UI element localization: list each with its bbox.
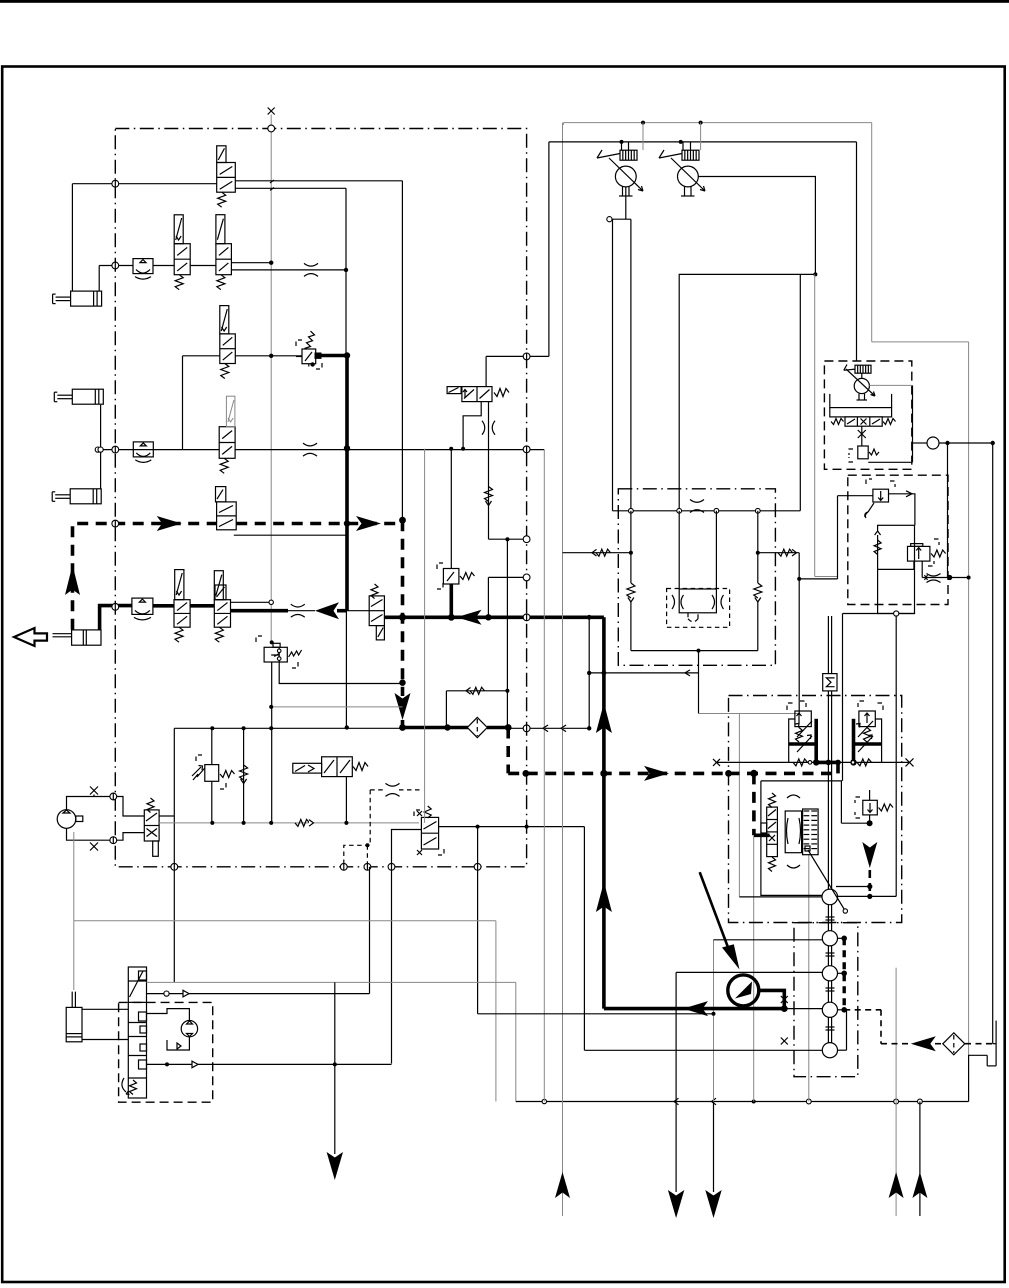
pump block frame left (612, 219, 614, 511)
junction circle enclosure right edge row356 (523, 353, 530, 360)
gray drain rail y921 (74, 920, 496, 922)
wire P1 feed y939 (714, 939, 823, 941)
gear pump stack enclosure (794, 923, 858, 1077)
gray drain from pump PB down to steering (73, 832, 75, 990)
fan drive enclosure (dashed) (824, 361, 911, 469)
wire M1 bottom-left port elbow to row449 (463, 402, 481, 449)
filter F1 (diamond) (467, 717, 487, 737)
valve V2b (3/2 solenoid) (216, 244, 232, 275)
check valve with spring branch (446, 690, 507, 692)
spring check x243 (243, 728, 245, 823)
flush block enclosure (dash-dot) (618, 489, 775, 666)
wire bypass loop x589 (588, 617, 590, 728)
gauge riser x912 (912, 385, 914, 462)
check marker in steering loop (177, 1043, 181, 1049)
arrow up on pilot dashed riser (65, 565, 80, 595)
right spring-check port row552 (758, 552, 799, 554)
wire U2 output Z-route (679, 177, 815, 511)
steering enclosure (dashed box) (119, 1002, 213, 1102)
dashed drain route to filter F2 (844, 1009, 881, 1011)
variable pump U2 (678, 166, 699, 187)
gray bus x424 (424, 449, 426, 823)
wire into V3 from left riser (183, 355, 220, 357)
wire riser x549 top corner (548, 141, 550, 143)
gray x871 drop (871, 123, 873, 342)
gray link row707 (271, 706, 402, 708)
thick dash-dot drain with down arrow (862, 842, 877, 868)
bypass relief PRE (866, 479, 872, 484)
riser x837 fan feed (837, 496, 839, 579)
wire P2 feed y972 (676, 971, 822, 973)
thick main line V4 to right corner (384, 615, 604, 619)
wire P0 right to riser (838, 895, 897, 897)
wire P0 left (739, 896, 822, 898)
wire P3-P4 link x846 (846, 1010, 848, 1050)
valve V5b (3/2 solenoid) (214, 600, 230, 628)
pressure override PRA (787, 703, 793, 710)
wire return row to right edge (508, 727, 589, 729)
top bus y142 (549, 141, 857, 143)
valve V7 (pilot) (216, 487, 226, 502)
wire cylinder riser x100 row3 (100, 405, 102, 489)
flow control FC3 (132, 598, 153, 614)
piston stack block (803, 809, 819, 855)
wire PRE right elbow (889, 494, 915, 526)
wire x631 down to manifold (630, 219, 632, 511)
thick wire PRV1 out to junction (315, 353, 322, 359)
wire x507 pilot drop (506, 539, 508, 727)
pump P3 (822, 1002, 837, 1017)
valve V3 (3/2) (220, 334, 236, 364)
variable pump U1 (615, 166, 636, 187)
fan pump FP (854, 378, 869, 393)
arrow up on riser (lower) (596, 882, 612, 912)
steering tank line y1064 (147, 1063, 392, 1065)
thick main riser x347 down (345, 356, 349, 611)
wire M1 bottom-right port down x488 (488, 402, 490, 540)
valve V6 (3/2 pilot) (219, 427, 235, 459)
cylinder C2 (row3) (72, 389, 103, 404)
wire x477 drop (477, 827, 479, 1014)
wire x799 drop (798, 553, 800, 714)
swash link diagonal (808, 850, 845, 911)
valve V5a (pilot operated) (174, 600, 190, 628)
tank riser x920 with up arrow (919, 1102, 921, 1199)
arrow left on thick main line (457, 610, 482, 625)
gray wire x808 drop (808, 855, 810, 1102)
wire V5b upper out to gray bus (231, 601, 272, 603)
wire x346 thin continue down to filter row (345, 611, 347, 728)
junction circle enclosure left edge thick row (112, 603, 119, 610)
manifold line y511 with ports (613, 510, 801, 512)
gray corner y342 to right bus (872, 341, 969, 343)
junction circles bottom edge x343 x367 (340, 863, 347, 870)
fan valve block (830, 408, 892, 417)
charge pump P0 (822, 889, 838, 905)
junction circle enclosure left edge row449 (112, 446, 119, 453)
wire port1 drop with spring check (630, 511, 632, 583)
wire riser x182 down to row449 (182, 356, 184, 450)
relief valve PRV2 (437, 563, 443, 569)
left spring-check port row552 (563, 552, 631, 554)
wire row2 V2a to V2b (190, 265, 216, 267)
filter F2 (diamond) (935, 1043, 943, 1045)
junction circle enclosure right edge row449 (523, 446, 530, 453)
charge relief PRC (855, 797, 860, 803)
thick dashed drop to control valve (752, 773, 756, 835)
right riser x896 down from cooler (895, 614, 897, 897)
check valve spring on x488 (485, 487, 493, 502)
wire arrow tail to valve V4 (339, 610, 369, 612)
valve V2a (pilot operated) (174, 244, 190, 275)
wire x488 stub down to thick line (487, 577, 489, 617)
wire x402 thin riser (401, 181, 403, 520)
junction circle enclosure right edge thick line (523, 614, 530, 621)
thick wire C4 to FC3 (100, 606, 132, 630)
right bus drop (992, 443, 994, 1044)
thick wire V5a to V5b (190, 604, 214, 608)
cylinder C3 (row449) (70, 489, 101, 504)
long drop line x335 with down arrow (334, 994, 336, 1154)
wire port2 port3 drops (678, 511, 680, 589)
wire V5b lower out with restrictor (231, 609, 289, 613)
wire return row thin left part (174, 727, 403, 729)
steering cylinder CS (66, 1007, 82, 1041)
steering control unit stack (128, 967, 146, 1098)
valve M2 (4/2 horizontal) (293, 763, 322, 773)
shaft P1-P4 (827, 905, 829, 1043)
wire row449 main (98, 449, 219, 451)
wire row356 to riser x549 (486, 355, 549, 357)
gray wire x753 drop (753, 836, 755, 1102)
wire x676 down arrow (675, 972, 677, 1192)
hydrostat control spool (767, 807, 778, 857)
cylinder C4 (thick row) (72, 630, 101, 645)
servo cross line y762 (717, 761, 910, 763)
thick dashed drop x508 (506, 728, 510, 774)
wire drop to cylinder C1 (71, 184, 73, 291)
steering line with check to long drop (147, 993, 370, 995)
wire stub row577 (488, 576, 526, 578)
arrow left on work line (315, 602, 339, 619)
hydrostatic enclosure (dash-dot) (729, 696, 902, 923)
wire row2 left segment (99, 265, 133, 267)
junction circle enclosure right edge return row (523, 725, 530, 732)
wire fan feed y579 (799, 578, 837, 580)
wire V1 out lower to x346 (235, 187, 346, 189)
wire V2b out upper to gray bus (231, 262, 271, 264)
thick line filter F1 to corner x508 (487, 726, 508, 730)
pointer arrow to pump MP (700, 872, 729, 950)
gray bus x562 with up arrow (562, 123, 564, 1198)
wire y673 link (589, 672, 698, 674)
wire U1 drain elbow (625, 187, 627, 219)
wire port4 drop with spring check (757, 511, 759, 583)
gray corner down x563 (562, 123, 564, 125)
wire y1014 link (478, 1013, 714, 1015)
valve VB (2-pos) (144, 810, 159, 841)
gray link y713 (699, 713, 800, 715)
thick dashed pilot line left corner (73, 524, 217, 630)
relief valve RVB (196, 755, 202, 761)
wire M2 down to tank rail (345, 777, 347, 823)
spring check on tank rail (295, 819, 310, 826)
summation box Sigma (823, 674, 837, 691)
arrow right on LS dashed line (644, 766, 669, 781)
gray bus x544 (543, 450, 545, 1102)
wire x488 corner to enclosure edge (489, 538, 527, 540)
gray right bus x968 drop (968, 342, 970, 1055)
wire x713 down arrow (713, 940, 715, 1102)
wire V1 out upper to x402 (235, 180, 402, 182)
gray aux drop x814 (814, 274, 816, 576)
thick dashed riser x402 down with arrow (401, 520, 405, 688)
pump P2 (822, 966, 837, 981)
gray drop x739 to pump P0 (738, 714, 740, 897)
node X vent bottom (90, 843, 98, 851)
fan relief PRD (849, 449, 853, 455)
junction circle bottom edge x174 (171, 863, 178, 870)
wire P4 feed y1050 (584, 1049, 822, 1051)
flow control FC1 (133, 259, 153, 274)
wire x856 drop to fan box (856, 142, 858, 361)
pressure reducing valve PRV1 (296, 340, 302, 346)
spring check in bypass (874, 540, 881, 555)
gyrotor metering unit (181, 1020, 197, 1036)
arrow right on pilot line (second) (356, 516, 381, 531)
pressure override PRB (877, 703, 883, 710)
thick return line into filter F1 (403, 726, 469, 730)
wire bottom collector y650 (631, 650, 758, 652)
pump block frame right (799, 274, 801, 510)
dashed pilot to V8 (399, 789, 421, 791)
wire x367 down to steering line (369, 867, 371, 994)
thick wire FC3 to V5a (153, 604, 174, 608)
wire M1 top to row356 (485, 356, 487, 386)
junction circle enclosure pump row1 (110, 793, 117, 800)
wire PRG right port to y683 (279, 662, 402, 684)
wire cooler return y613 (843, 613, 915, 615)
wire C1 cap side up to row2 (98, 266, 100, 292)
pump P4 (822, 1043, 837, 1058)
servo loop frame (761, 781, 842, 823)
loader control enclosure (dash-dot box) (115, 129, 526, 867)
charge pump PB (57, 810, 76, 829)
wire V2b out lower with throttle to x346 (231, 269, 346, 271)
gauge port circle (927, 437, 939, 449)
bypass throttle line y577 (922, 577, 968, 579)
gray stem U1 (642, 123, 644, 150)
wire x842 drop to servo frame (842, 614, 844, 781)
node x small below (781, 1038, 788, 1045)
wire P3 feed from suction (784, 1008, 822, 1010)
valve V1 (3/2 solenoid) (217, 163, 236, 193)
wire x271 below reducer (271, 662, 273, 823)
wire x584 drop to P4 feed (583, 827, 585, 1051)
wire row2 FC1 to V2a (153, 265, 174, 267)
wire VB right upper to riser x174 (159, 815, 174, 817)
wire RVB pilot up/down (211, 728, 213, 764)
wire row1 from cylinder to valve V1 (72, 183, 216, 185)
hollow arrow marker at C4 rod (14, 628, 47, 646)
junction circle bottom edge x391 (388, 863, 395, 870)
arrow up on riser (upper) (596, 703, 612, 733)
drive shaft double line upper (827, 616, 829, 674)
node X vent top (90, 787, 98, 795)
thick dashed LS into hydrostat (729, 772, 839, 776)
wire V8 left-bottom port (392, 830, 422, 1064)
gray link fan to riser (869, 384, 912, 386)
arrow left on suction line (683, 1001, 708, 1016)
junction circle enclosure pump row2 (110, 837, 117, 844)
wire x346 from V1 lower down to PRV1 junction (345, 188, 347, 354)
top title bar (0, 0, 1009, 3)
wire x698 down (698, 651, 700, 714)
wire x947 drop (947, 443, 949, 578)
node X below fan valve (861, 426, 863, 446)
thick pressure riser x604 (602, 617, 606, 1008)
wire pump PB bottom loop (67, 828, 145, 840)
cylinder C1 (71, 291, 102, 306)
junction circle enclosure left edge row2 (112, 262, 119, 269)
junction circle on enclosure top (268, 125, 275, 132)
gray steering line top (147, 981, 516, 983)
wire V7 lower output (234, 534, 347, 536)
LS shuttle valve V8 (421, 817, 438, 849)
wire pump PB top loop (67, 797, 145, 817)
wire V3 out to PRV1 (235, 355, 302, 357)
wire row449 V6 to right (235, 449, 544, 451)
main hydrostatic pump MP (728, 975, 759, 1006)
wire gray bus lower part (270, 822, 272, 824)
thick dashed LS line to right (508, 772, 728, 776)
wire pilot gray bus x271 (270, 115, 272, 643)
thick dashed pilot line to x402 (236, 522, 402, 526)
gray top bus y122 (563, 122, 871, 124)
pressure reducer PRG (256, 636, 262, 642)
thick corner x347 to arrow (337, 609, 347, 613)
gray stem U2 (700, 123, 702, 150)
thick elbow MP outlet (759, 990, 785, 1008)
bypass body frame (878, 525, 915, 613)
wire PRE left to fan feed (838, 495, 873, 497)
junction circle enclosure left edge row1 (112, 180, 119, 187)
tank rail y1101 (516, 1101, 969, 1103)
cooler bypass enclosure (dashed) (848, 475, 948, 604)
pump P1 (822, 931, 837, 946)
wire tank rail y823 (159, 822, 419, 824)
drive shaft double line into gearbox (827, 691, 829, 889)
wire V8 right port line (439, 826, 585, 828)
wire PRV2 pilot up (450, 449, 452, 569)
arrow left on drain route (911, 1036, 936, 1051)
junction circle bottom edge x477 (474, 863, 481, 870)
thick wire PRV2 down to main (449, 584, 453, 617)
thick dashed drain x844 (843, 938, 846, 1010)
wire riser x174 up to return row (173, 728, 175, 816)
valve M1 (4/2 horizontal) (447, 387, 461, 394)
gray drop x516 to bottom rail (515, 982, 517, 1101)
wire riser x549 (to top distributor) (548, 142, 550, 357)
node X plug above enclosure (268, 108, 275, 115)
cold relief PRF (911, 544, 923, 547)
inner bypass sub-block (667, 589, 730, 628)
gray tank riser x896 with up arrow (895, 968, 897, 1198)
dashed to right bus (965, 1043, 993, 1045)
wire riser x174 down to steering (173, 816, 175, 982)
valve V4 (3/2 with bottom pilot) (369, 596, 384, 626)
junction circle enclosure left edge pilot row (112, 520, 119, 527)
flow control FC2 (133, 442, 153, 457)
wire PRD to gauge riser (868, 461, 912, 463)
tank bracket bottom right (993, 1043, 996, 1045)
arrow right on pilot dashed line (157, 516, 182, 531)
chevron marks on gray crossings (543, 725, 548, 732)
thick suction line bottom (604, 1007, 784, 1011)
swash housing (785, 811, 801, 853)
wire CS ports to steering valve (82, 1008, 128, 1010)
